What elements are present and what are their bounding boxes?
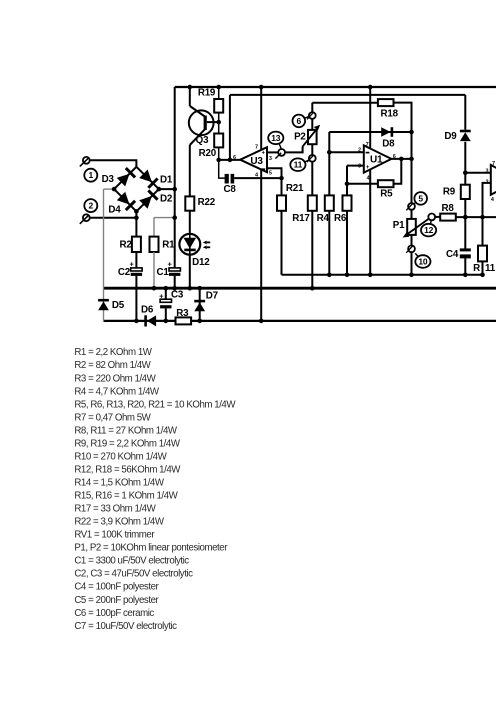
wire P2 to R17 — [311, 162, 313, 196]
node bridge bottom — [134, 209, 139, 214]
wire wiper to 13 — [285, 146, 303, 152]
wire R17 to ground — [310, 211, 315, 291]
label P2 — [294, 131, 306, 142]
svg-text:R6: R6 — [334, 213, 347, 224]
resistor R11 — [478, 246, 487, 262]
potentiometer P1 — [407, 219, 416, 235]
terminal 1 connector — [80, 157, 90, 166]
wire D8 corner — [327, 132, 332, 195]
svg-text:R1: R1 — [162, 240, 175, 251]
diode D6 — [144, 315, 156, 326]
svg-text:C1 = 3300 uF/50V electrolytic: C1 = 3300 uF/50V electrolytic — [74, 556, 189, 567]
wire U3 pin7 — [259, 85, 264, 150]
label D8 — [382, 139, 395, 150]
wire P1 lower lead — [411, 235, 413, 246]
svg-text:R5, R6, R13, R20, R21 = 10 KOh: R5, R6, R13, R20, R21 = 10 KOhm 1/4W — [74, 399, 236, 410]
svg-text:R12, R18 = 56KOhm 1/4W: R12, R18 = 56KOhm 1/4W — [74, 465, 181, 476]
wire U1 pin3 — [347, 165, 364, 167]
svg-text:D4: D4 — [108, 205, 121, 216]
wire R9 down — [463, 199, 468, 249]
badge 2 — [84, 199, 97, 212]
svg-text:C8: C8 — [224, 184, 237, 195]
svg-text:10: 10 — [418, 256, 428, 266]
wire to P1 — [411, 132, 413, 203]
wire P1 to mid rail — [409, 252, 414, 277]
wire D9 top — [464, 95, 466, 130]
wire R5 right — [394, 159, 402, 184]
resistor R6 — [343, 195, 352, 210]
badge 6 — [293, 115, 309, 128]
wire U2 pin2 corner — [483, 183, 491, 246]
label R18 — [381, 108, 399, 119]
U3 pin numbers — [233, 145, 272, 179]
wire R8 line — [435, 215, 496, 220]
svg-text:D9: D9 — [444, 131, 457, 142]
wire bridge to R2 — [134, 211, 139, 236]
diode D4 — [114, 189, 136, 211]
wire C4 down — [463, 258, 468, 277]
op-amp U3 — [240, 147, 267, 172]
svg-text:D2: D2 — [160, 193, 173, 204]
svg-text:5: 5 — [269, 170, 272, 176]
svg-text:C2: C2 — [118, 267, 131, 278]
svg-text:2: 2 — [486, 179, 489, 185]
svg-text:D6: D6 — [141, 304, 154, 315]
label D3 — [102, 174, 115, 185]
svg-text:C6 = 100pF ceramic: C6 = 100pF ceramic — [74, 608, 154, 619]
svg-text:R14 = 1,5 KOhm 1/4W: R14 = 1,5 KOhm 1/4W — [74, 478, 164, 489]
wire bus2 drop — [228, 95, 233, 162]
diode D8 — [381, 127, 393, 137]
label R19 — [198, 88, 216, 99]
label R5 — [380, 188, 393, 199]
svg-text:D1: D1 — [160, 175, 173, 186]
svg-text:6: 6 — [297, 116, 302, 126]
badge 1 — [84, 169, 97, 182]
wire top positive bus — [175, 86, 496, 88]
label R3 — [176, 308, 189, 319]
wire C8 left — [219, 160, 225, 178]
svg-text:R8, R11 = 27 KOhm 1/4W: R8, R11 = 27 KOhm 1/4W — [74, 425, 177, 436]
label C2 — [118, 267, 131, 278]
svg-text:RV1 = 100K trimmer: RV1 = 100K trimmer — [74, 530, 155, 541]
wire U3 lower pin — [267, 168, 284, 195]
wire U3 input — [219, 159, 241, 161]
svg-text:C2, C3 = 47uF/50V electrolytic: C2, C3 = 47uF/50V electrolytic — [74, 569, 193, 580]
wire bridge left to D5 line — [104, 187, 117, 288]
label R2 — [120, 240, 133, 251]
label D2 — [160, 193, 173, 204]
svg-text:1: 1 — [89, 170, 94, 180]
wire C2 to bottom rail — [134, 276, 139, 323]
badge 12 — [421, 221, 436, 237]
wire D8 line — [329, 130, 414, 135]
resistor R9 — [461, 185, 470, 199]
wire U1 pin4 down — [368, 169, 373, 277]
wire R5 left — [347, 183, 378, 185]
wire P1 upper lead — [411, 210, 413, 219]
wire D7 — [197, 286, 202, 323]
wire R4 down — [327, 211, 332, 277]
svg-text:P1: P1 — [393, 220, 405, 231]
terminal 6 connector — [307, 112, 316, 119]
label D1 — [160, 175, 173, 186]
node bridge right — [157, 187, 177, 192]
svg-text:P1, P2 = 10KOhm linear pontesi: P1, P2 = 10KOhm linear pontesiometer — [74, 543, 228, 554]
resistor R5 — [378, 180, 394, 187]
resistor R19 — [214, 99, 223, 113]
label D6 — [141, 304, 154, 315]
wire U3 pin4 down — [259, 170, 264, 324]
svg-text:R17: R17 — [292, 213, 310, 224]
svg-text:C3: C3 — [171, 289, 184, 300]
wire U1 output — [391, 157, 413, 162]
capacitor C4 — [460, 248, 471, 258]
U1 pin numbers — [358, 142, 396, 182]
label R21 — [286, 183, 304, 194]
svg-text:R3: R3 — [176, 308, 189, 319]
resistor R17 — [308, 195, 317, 210]
label R6 — [334, 213, 347, 224]
transistor Q3 — [189, 110, 214, 135]
badge 10 — [415, 253, 430, 267]
svg-text:R2 = 82 Ohm 1/4W: R2 = 82 Ohm 1/4W — [74, 360, 151, 371]
label R9 — [443, 186, 456, 197]
terminal 2 connector — [80, 214, 90, 224]
svg-text:5: 5 — [418, 193, 423, 203]
label C1 plus — [168, 260, 173, 269]
svg-text:R1 = 2,2 KOhm 1W: R1 = 2,2 KOhm 1W — [74, 347, 152, 358]
U2 pin numbers — [486, 161, 495, 203]
diode D2 — [136, 189, 159, 211]
wire D12 to ground — [188, 255, 193, 291]
svg-text:R15, R16 = 1 KOhm 1/4W: R15, R16 = 1 KOhm 1/4W — [74, 491, 178, 502]
wire terminal1 to bridge — [90, 160, 137, 167]
svg-text:C1: C1 — [157, 267, 170, 278]
svg-text:R: R — [473, 263, 480, 274]
label R4 — [317, 213, 330, 224]
wire R2 to C2 — [135, 252, 137, 268]
terminal 11 connector — [307, 155, 316, 162]
svg-text:3: 3 — [269, 156, 272, 162]
label R17 — [292, 213, 310, 224]
resistor R22 — [185, 196, 194, 210]
wire frame to ground — [174, 276, 176, 288]
resistor R3 — [176, 317, 192, 324]
wire U1 pin7 — [368, 85, 373, 149]
label D7 — [206, 290, 219, 301]
svg-text:R9, R19 = 2,2 KOhm 1/4W: R9, R19 = 2,2 KOhm 1/4W — [74, 438, 180, 449]
wire R20 down — [216, 147, 221, 162]
svg-text:3: 3 — [358, 163, 361, 169]
capacitor C3 — [160, 299, 171, 308]
svg-text:R21: R21 — [286, 183, 304, 194]
resistor R8 — [440, 214, 456, 221]
svg-text:R20: R20 — [199, 148, 217, 159]
svg-text:R22: R22 — [198, 197, 216, 208]
wire pin3 corner — [345, 166, 350, 196]
wire U3 to terminal 13 — [267, 151, 278, 153]
badge 13 — [268, 132, 283, 149]
wire R19 top — [216, 85, 221, 99]
wire R21 down — [281, 211, 283, 275]
svg-text:2: 2 — [358, 147, 361, 153]
svg-text:D7: D7 — [206, 290, 219, 301]
P1 wiper arrow — [403, 219, 429, 238]
resistor R20 — [214, 134, 223, 148]
resistor R21 — [277, 195, 286, 210]
label D12 — [192, 257, 210, 268]
label D9 — [444, 131, 457, 142]
label C3 — [171, 289, 184, 300]
op-amp U2 — [491, 165, 496, 195]
wire P2 top — [312, 103, 378, 112]
terminal 5 connector — [406, 203, 415, 210]
wire Q3 base — [207, 120, 221, 125]
label D4 — [108, 205, 121, 216]
wire second bus — [230, 94, 465, 96]
label R20 — [199, 148, 217, 159]
resistor R18 — [378, 99, 394, 106]
svg-text:R2: R2 — [120, 240, 133, 251]
svg-text:R17 = 33 Ohm 1/4W: R17 = 33 Ohm 1/4W — [74, 504, 156, 515]
wire ground bus — [104, 287, 496, 290]
badge 5 — [414, 192, 427, 205]
svg-text:C5 = 200nF polyester: C5 = 200nF polyester — [74, 595, 159, 606]
wire R19 R20 — [218, 113, 220, 134]
svg-text:7: 7 — [255, 145, 258, 151]
resistor R4 — [325, 195, 334, 210]
svg-text:U1: U1 — [370, 155, 383, 166]
wire D9 to R9 — [463, 142, 468, 185]
svg-text:R7 = 0,47 Ohm 5W: R7 = 0,47 Ohm 5W — [74, 412, 151, 423]
svg-text:12: 12 — [424, 225, 434, 235]
svg-text:R19: R19 — [198, 88, 216, 99]
svg-text:D8: D8 — [382, 139, 395, 150]
svg-text:R18: R18 — [381, 108, 399, 119]
label C3 plus — [159, 291, 164, 300]
label C8 — [224, 184, 237, 195]
svg-text:R8: R8 — [441, 203, 454, 214]
wire P2 upper lead — [311, 119, 313, 130]
wire bottom rail — [104, 320, 496, 322]
wire R1 to ground — [152, 252, 157, 291]
terminal 10 connector — [406, 245, 415, 252]
label C4 — [446, 249, 459, 260]
svg-text:R10 = 270 KOhm 1/4W: R10 = 270 KOhm 1/4W — [74, 451, 167, 462]
wire U2 pin3 — [465, 172, 491, 174]
svg-text:11: 11 — [485, 263, 496, 274]
svg-text:C4 = 100nF polyester: C4 = 100nF polyester — [74, 582, 159, 593]
label C2 plus — [130, 260, 135, 269]
diode D3 — [114, 167, 136, 189]
capacitor C2 — [131, 268, 142, 276]
svg-text:11: 11 — [294, 160, 303, 170]
wire left frame vertical — [174, 87, 176, 268]
svg-text:R4 = 4,7 KOhm 1/4W: R4 = 4,7 KOhm 1/4W — [74, 386, 160, 397]
diode D5 — [98, 299, 109, 310]
svg-text:D5: D5 — [112, 300, 125, 311]
svg-text:6: 6 — [233, 155, 236, 161]
svg-text:13: 13 — [271, 133, 281, 143]
wire R18 right — [394, 103, 412, 132]
wire R1 vertical upper — [153, 218, 155, 237]
label R8 — [441, 203, 454, 214]
label D5 — [112, 300, 125, 311]
diode D1 — [136, 167, 159, 189]
wire R22 to D12 — [189, 211, 191, 234]
LED D12 arrows — [203, 241, 210, 250]
capacitor C8 — [225, 174, 235, 184]
svg-text:D3: D3 — [102, 174, 115, 185]
wire R6 down — [345, 211, 350, 277]
P2 wiper arrow — [303, 125, 321, 147]
wire R1 top — [154, 215, 177, 220]
wire mid rail — [282, 274, 485, 276]
badge 11 — [290, 158, 308, 171]
wire Q3 collector — [188, 85, 205, 117]
label R1 — [162, 240, 175, 251]
node C1 ground — [172, 286, 177, 291]
terminal 13 connector — [275, 149, 285, 159]
svg-text:C4: C4 — [446, 249, 459, 260]
wire D5 line lower — [103, 288, 105, 321]
capacitor C1 — [169, 268, 180, 276]
wire terminal2 to bridge — [90, 217, 137, 219]
terminal 12 connector — [428, 214, 435, 221]
op-amp U1 — [364, 145, 392, 172]
resistor R1 — [150, 237, 159, 252]
svg-text:3: 3 — [486, 168, 489, 174]
svg-text:P2: P2 — [294, 131, 306, 142]
diode D7 — [194, 300, 205, 311]
svg-text:R22 = 3,9 KOhm 1/4W: R22 = 3,9 KOhm 1/4W — [74, 517, 164, 528]
wire Q3 emitter — [190, 129, 205, 196]
svg-text:7: 7 — [366, 142, 369, 148]
label R11 — [473, 263, 496, 274]
LED D12 — [179, 234, 200, 255]
svg-text:R5: R5 — [380, 188, 393, 199]
svg-text:D12: D12 — [192, 257, 210, 268]
svg-text:U3: U3 — [250, 156, 263, 167]
label C1 — [157, 267, 170, 278]
svg-text:7: 7 — [492, 161, 495, 167]
resistor R2 — [132, 237, 141, 252]
wire P2 lower lead — [311, 144, 313, 155]
label R22 — [198, 197, 216, 208]
label Q3 — [196, 135, 209, 146]
wire C3 bottom — [164, 308, 169, 323]
wire C3 top — [164, 286, 169, 299]
svg-text:R9: R9 — [443, 186, 456, 197]
potentiometer P2 — [308, 130, 317, 144]
wire R11 down — [480, 261, 485, 277]
diode D9 — [460, 130, 471, 141]
svg-text:R3 = 220 Ohm 1/4W: R3 = 220 Ohm 1/4W — [74, 373, 156, 384]
label P1 — [393, 220, 405, 231]
svg-text:R4: R4 — [317, 213, 330, 224]
wire U1 pin2 — [329, 151, 364, 153]
svg-text:2: 2 — [89, 200, 94, 210]
wire C8 right — [234, 177, 281, 179]
svg-text:C7 = 10uF/50V electrolytic: C7 = 10uF/50V electrolytic — [74, 621, 177, 632]
